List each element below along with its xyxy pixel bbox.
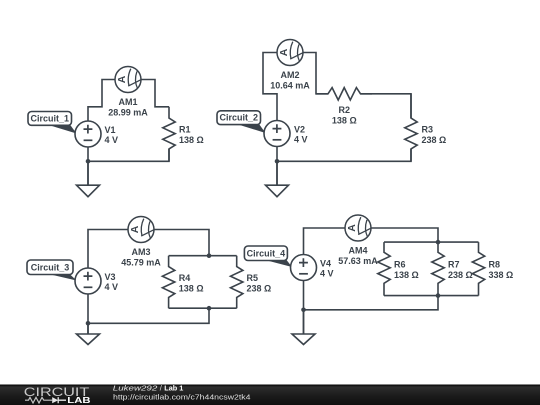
junction circuit 4 ground node [301,308,306,313]
ammeter AM2 [277,40,303,66]
svg-text:238 Ω: 238 Ω [448,270,473,280]
label V2 value [294,124,308,144]
svg-text:R4: R4 [179,273,191,283]
node Circuit_4 callout label [244,246,292,267]
svg-text:R2: R2 [339,105,351,115]
resistor R6 [378,242,390,296]
svg-text:R3: R3 [422,125,434,135]
resistor R8 [472,242,484,296]
svg-text:A: A [346,224,358,232]
label V3 value [105,272,119,292]
junction AM3 to rail junction [207,253,212,258]
footer bar background [0,385,540,405]
wire parallel top rail R4-R5 [169,255,237,257]
wire R3 bottom to V2 bottom rail [277,149,411,161]
CircuitLab logo resistor squiggle [25,397,52,403]
resistor R3 [405,94,417,162]
voltage source V1 [75,121,101,147]
junction circuit 1 ground node [86,159,91,164]
svg-text:4 V: 4 V [105,282,119,292]
svg-text:V4: V4 [320,258,331,268]
wire V2 bottom to ground node [276,147,278,186]
svg-text:Lab 1: Lab 1 [164,384,183,393]
svg-text:Lukew292: Lukew292 [113,384,158,393]
node Circuit_2 callout label [217,111,266,133]
svg-text:V3: V3 [105,272,116,282]
svg-text:45.79 mA: 45.79 mA [121,258,161,268]
svg-text:Circuit_2: Circuit_2 [219,113,258,123]
wire V3 top to AM3 left [88,230,128,269]
junction circuit 2 ground node [275,159,280,164]
label R4 value [179,273,204,293]
svg-text:4 V: 4 V [320,269,334,279]
svg-text:V1: V1 [105,125,116,135]
voltage source V3 [75,268,101,294]
footer username and title [113,384,184,393]
ground [77,161,100,196]
label AM1 value [108,97,148,118]
label AM4 value [338,245,378,266]
resistor R1 [163,107,175,162]
ammeter AM4 [345,215,371,241]
resistor R5 [231,256,243,309]
ammeter AM1 [115,67,141,93]
svg-text:Circuit_3: Circuit_3 [31,263,70,273]
wire V2 top to AM2 left [263,53,277,121]
label R7 value [448,259,473,280]
svg-text:138 Ω: 138 Ω [179,135,204,145]
wire V4 bottom to ground node [303,280,305,334]
svg-text:R5: R5 [247,273,259,283]
wire R2 right to R3 top [361,94,412,118]
wire V1 top to AM1 left [88,80,115,122]
voltage source V2 [264,121,290,147]
wire parallel bottom rail R4-R5 [169,307,237,309]
svg-text:R7: R7 [448,259,460,269]
junction bottom rail junction [207,306,212,311]
wire parallel top rail R6-R7-R8 [384,241,479,243]
wire V4 top to AM4 left [304,228,345,255]
label R1 value [179,125,204,145]
svg-text:V2: V2 [294,124,305,134]
svg-text:A: A [116,75,128,83]
svg-text:http://circuitlab.com/c7h44ncs: http://circuitlab.com/c7h44ncsw2tk4 [113,393,251,402]
svg-text:R8: R8 [489,259,501,269]
label AM2 value [270,70,310,91]
svg-text:138 Ω: 138 Ω [179,283,204,293]
node Circuit_3 callout label [27,260,77,281]
svg-text:10.64 mA: 10.64 mA [270,81,310,91]
svg-text:Circuit_1: Circuit_1 [30,113,69,123]
junction bottom rail junction C4 [436,293,441,298]
label R6 value [394,259,419,280]
label V4 value [320,258,334,278]
svg-text:138 Ω: 138 Ω [332,115,357,125]
svg-text:4 V: 4 V [294,135,308,145]
wire AM4 right to parallel top rail [371,228,438,242]
svg-text:AM4: AM4 [348,245,367,255]
wire parallel bottom rail R6-R7-R8 [384,295,479,297]
svg-text:A: A [129,225,141,233]
svg-text:AM2: AM2 [280,70,299,80]
wire V1 bottom to ground node [87,147,89,185]
ammeter AM3 [128,217,154,243]
label R5 value [247,273,272,293]
label AM3 value [121,247,161,268]
resistor R7 [432,242,444,296]
svg-text:338 Ω: 338 Ω [489,270,514,280]
label R2 value [332,105,357,126]
svg-text:238 Ω: 238 Ω [247,283,272,293]
svg-text:A: A [278,48,290,56]
resistor R4 [162,256,174,309]
svg-text:238 Ω: 238 Ω [422,135,447,145]
ground [77,323,100,344]
svg-text:138 Ω: 138 Ω [394,270,419,280]
svg-text:Circuit_4: Circuit_4 [247,249,286,259]
junction AM4 to rail junction [436,240,441,245]
wire AM2 right to R2 left [303,53,328,94]
CircuitLab logo diode [52,397,66,403]
svg-text:R1: R1 [179,125,191,135]
wire AM1 right to R1 top [141,80,169,107]
node Circuit_1 callout label [28,112,77,134]
svg-text:57.63 mA: 57.63 mA [338,256,378,266]
resistor R2 [316,88,372,100]
wire V3 bottom to ground node [87,294,89,334]
svg-text:4 V: 4 V [105,135,119,145]
ground [292,310,315,345]
label V1 value [105,125,119,145]
label R8 value [489,259,514,280]
ground [266,161,289,196]
svg-text:R6: R6 [394,259,406,269]
voltage source V4 [291,255,317,281]
wire bottom rail to V3 bottom [88,308,209,323]
wire bottom rail to V4 bottom [304,296,439,310]
wire AM3 right to parallel top rail [154,230,209,256]
wire R1 bottom to V1 bottom rail [88,149,169,161]
svg-text:AM3: AM3 [131,247,150,257]
label R3 value [422,125,447,145]
svg-text:LAB: LAB [67,396,91,405]
svg-text:AM1: AM1 [118,97,137,107]
junction circuit 3 ground node [86,321,91,326]
svg-text:28.99 mA: 28.99 mA [108,108,148,118]
